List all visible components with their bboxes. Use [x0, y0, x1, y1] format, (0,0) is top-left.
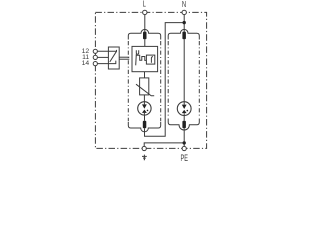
wire riser from left branch bottom to N node — [145, 23, 185, 137]
terminal (L top, black clamp) — [143, 32, 147, 40]
switch arm — [135, 54, 138, 65]
wire 11 — [97, 56, 108, 58]
node PE junction dot — [183, 141, 186, 144]
right protection module box bottom edge with wire bump — [168, 119, 199, 131]
node N terminal circle — [182, 10, 186, 14]
disconnector / monitoring unit box U1 — [132, 46, 158, 71]
varistor RV1 body — [140, 78, 149, 95]
node PE terminal circle — [182, 146, 186, 150]
wire spark gap to bottom terminal — [144, 115, 146, 121]
indicator window box — [146, 55, 154, 64]
svg-text:L: L — [143, 0, 146, 9]
remote contact terminal circles 12/11/14 — [93, 49, 97, 53]
changeover switch box S1 — [108, 47, 119, 69]
node junction dot on N — [183, 21, 186, 24]
wire N bottom terminal to PE node — [183, 128, 185, 146]
varistor diagonal with tail — [136, 84, 154, 96]
spark gap F1 electrodes — [143, 102, 145, 115]
left protection module box dash-dot sides — [128, 41, 160, 121]
terminal (left bottom, black clamp) — [143, 121, 147, 129]
wire varistor to spark gap — [143, 95, 145, 102]
outer device boundary (dash-dot border) — [95, 12, 206, 148]
svg-text:N: N — [182, 0, 186, 9]
mechanical linkage to module — [119, 56, 129, 58]
wire PE bus to earth terminal — [144, 143, 184, 147]
square-wave trace — [136, 55, 146, 60]
wire monitoring box to varistor — [144, 72, 146, 78]
wire N down — [183, 15, 185, 32]
wire spark gap F2 to bottom terminal — [183, 116, 185, 121]
wire terminal to monitoring box — [144, 39, 146, 47]
ground symbol — [142, 155, 147, 160]
svg-text:14: 14 — [82, 60, 90, 67]
left protection module box top edge with wire bump — [128, 29, 160, 39]
left protection module box bottom edge with wire bump — [128, 122, 160, 132]
thermal switch hook symbol — [136, 50, 138, 54]
wire 14 with contact tick — [97, 61, 115, 64]
terminal (N top, black clamp) — [182, 32, 186, 40]
spark gap F1 circle (left) — [138, 102, 151, 115]
wire L down — [144, 15, 146, 32]
wire N branch down to spark gap — [183, 39, 185, 102]
wire 12 — [97, 50, 116, 52]
svg-text:PE: PE — [180, 153, 187, 164]
right protection module box top edge with wire bump — [168, 29, 199, 39]
right protection module box dash-dot sides — [168, 41, 199, 118]
switch arm S1 — [110, 50, 117, 62]
spark gap F2 electrodes — [183, 102, 185, 116]
indicator curve — [151, 57, 153, 63]
terminal (N bottom, black clamp) — [182, 121, 186, 129]
node L terminal circle — [143, 10, 147, 14]
spark gap F2 circle (N-PE) — [177, 102, 191, 116]
earth terminal circle — [142, 146, 146, 150]
